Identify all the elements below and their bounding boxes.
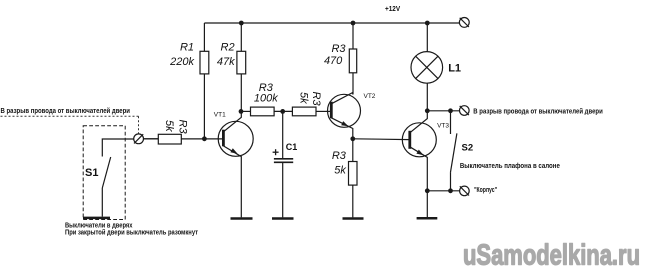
- svg-text:"Корпус": "Корпус": [474, 187, 497, 194]
- node VT3 emitter: [425, 188, 430, 193]
- svg-text:R3: R3: [332, 150, 347, 162]
- svg-text:220k: 220k: [169, 56, 194, 68]
- svg-text:5k: 5k: [334, 164, 346, 176]
- svg-text:R3: R3: [331, 43, 346, 55]
- wire R3-470 vertical: [352, 23, 354, 49]
- wire VT2 emitter row to VT3 base: [353, 138, 410, 141]
- node S2 top: [448, 108, 453, 113]
- wire resistor to VT2 base: [316, 110, 331, 112]
- node R1 base: [202, 136, 207, 141]
- ground VT1: [231, 217, 253, 220]
- svg-text:R1: R1: [180, 41, 194, 53]
- svg-text:L1: L1: [448, 63, 461, 75]
- transistor VT3: [402, 111, 436, 218]
- transistor VT1: [144, 111, 254, 217]
- wire node to R3 100k: [241, 110, 251, 112]
- svg-text:C1: C1: [286, 142, 298, 152]
- resistor R1: [200, 51, 209, 74]
- svg-text:В разрыв провода от выключател: В разрыв провода от выключателей двери: [473, 107, 603, 115]
- svg-text:100k: 100k: [254, 92, 278, 104]
- dashed enclosure S1: [83, 126, 125, 220]
- svg-text:S2: S2: [462, 142, 474, 153]
- ground VT3: [417, 217, 438, 220]
- svg-text:47k: 47k: [217, 56, 235, 68]
- wire terminal to R3 5k: [144, 138, 159, 140]
- resistor R3 5k horizontal (left): [158, 134, 181, 144]
- transistor VT2: [328, 93, 361, 139]
- lamp L1: [411, 52, 443, 84]
- svg-text:5k: 5k: [163, 120, 175, 132]
- svg-text:VT1: VT1: [214, 112, 226, 119]
- svg-text:uSamodelkina.ru: uSamodelkina.ru: [463, 240, 640, 272]
- wire between horizontal resistors: [274, 110, 292, 112]
- wire L1 bottom to collector node: [426, 83, 428, 111]
- svg-text:VT2: VT2: [364, 93, 376, 100]
- switch S1: [102, 139, 133, 217]
- resistor R3 5k horizontal (VT2 base): [292, 107, 316, 116]
- node C1: [280, 109, 285, 114]
- node rail-L1: [425, 21, 430, 26]
- svg-text:S1: S1: [85, 167, 98, 179]
- capacitor C1: [273, 111, 294, 217]
- node VT1 collector: [239, 109, 244, 114]
- wire L1 vertical top: [426, 23, 428, 52]
- node rail-R3470: [351, 21, 356, 26]
- ground S1: [83, 217, 110, 220]
- resistor R3 100k: [251, 107, 275, 116]
- svg-text:В разрыв провода от выключател: В разрыв провода от выключателей двери: [1, 107, 131, 115]
- wire +12V top rail: [204, 22, 459, 24]
- svg-text:R3: R3: [177, 120, 189, 135]
- resistor R3 5k vertical: [349, 162, 358, 186]
- node S2 bottom: [448, 188, 453, 193]
- terminal mid right: [460, 106, 470, 116]
- switch S2: [451, 111, 457, 191]
- node VT2 emitter: [350, 136, 355, 141]
- wire VT3 emitter row to terminal: [427, 190, 459, 192]
- svg-text:При закрытой двери выключатель: При закрытой двери выключатель разомкнут: [65, 228, 198, 236]
- node L1-VT3: [425, 108, 430, 113]
- svg-text:VT3: VT3: [437, 123, 449, 130]
- svg-text:R3: R3: [310, 92, 322, 107]
- terminal top right: [459, 18, 469, 28]
- wire VT3 collector row to terminal: [427, 110, 459, 112]
- svg-text:Выключатель плафона в салоне: Выключатель плафона в салоне: [460, 163, 560, 170]
- wire R1 vertical: [203, 23, 205, 51]
- node rail-R2: [239, 21, 244, 26]
- terminal left: [134, 134, 144, 144]
- wire R2 vertical: [240, 23, 242, 51]
- resistor R2: [237, 51, 246, 74]
- dashed leader: [1, 115, 139, 117]
- ground C1: [272, 217, 294, 220]
- svg-text:+12V: +12V: [385, 6, 400, 13]
- svg-text:5k: 5k: [298, 92, 310, 104]
- terminal bottom right: [460, 186, 470, 196]
- ground R3 5k: [343, 217, 364, 220]
- svg-text:470: 470: [324, 55, 343, 67]
- resistor R3 470: [349, 49, 356, 73]
- svg-text:R2: R2: [221, 41, 235, 53]
